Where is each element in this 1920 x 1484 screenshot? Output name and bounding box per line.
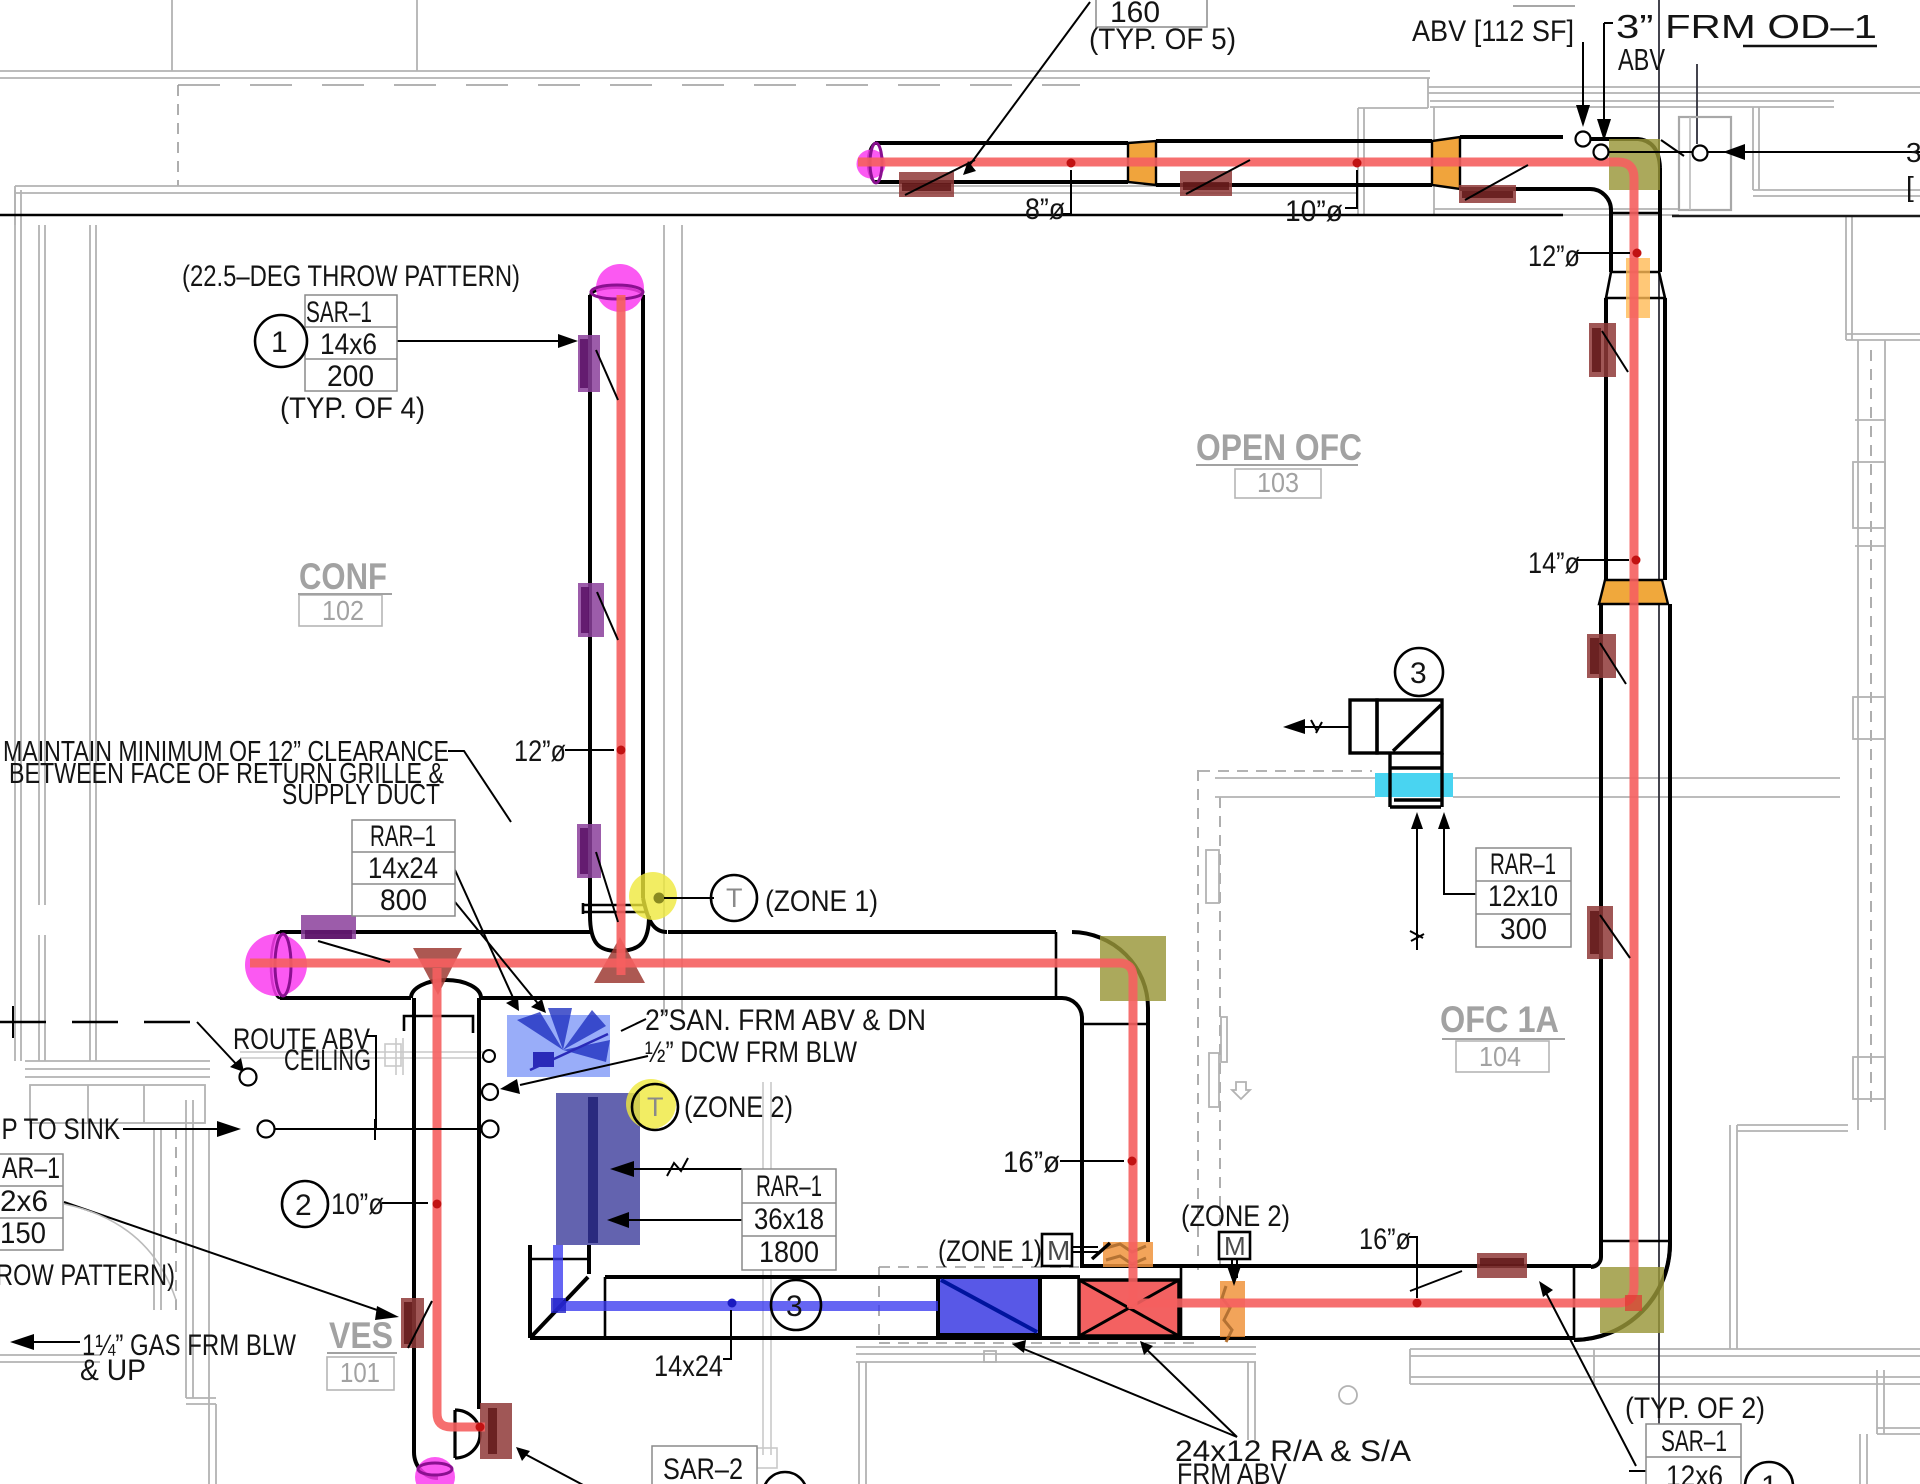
svg-text:36x18: 36x18	[754, 1203, 824, 1236]
svg-text:3: 3	[1906, 137, 1920, 168]
svg-text:ROW PATTERN): ROW PATTERN)	[0, 1259, 175, 1292]
svg-text:16”ø: 16”ø	[1003, 1146, 1060, 1179]
svg-text:RAR–1: RAR–1	[756, 1170, 822, 1203]
svg-text:CEILING: CEILING	[284, 1044, 371, 1077]
svg-text:2: 2	[295, 1189, 312, 1222]
svg-text:16”ø: 16”ø	[1359, 1223, 1411, 1256]
svg-text:200: 200	[327, 360, 374, 393]
svg-text:14x24: 14x24	[654, 1350, 723, 1383]
svg-text:RAR–1: RAR–1	[1490, 848, 1556, 881]
svg-text:1800: 1800	[759, 1236, 819, 1269]
svg-text:SUPPLY DUCT: SUPPLY DUCT	[282, 779, 440, 811]
svg-text:(ZONE 1): (ZONE 1)	[765, 885, 878, 918]
svg-text:ABV [112 SF]: ABV [112 SF]	[1412, 15, 1574, 48]
svg-text:1: 1	[271, 326, 288, 359]
svg-text:(TYP. OF 2): (TYP. OF 2)	[1625, 1392, 1765, 1425]
svg-text:CONF: CONF	[299, 556, 387, 597]
svg-text:8”ø: 8”ø	[1025, 193, 1065, 226]
svg-text:(TYP. OF 4): (TYP. OF 4)	[280, 392, 425, 425]
svg-text:10”ø: 10”ø	[331, 1188, 384, 1221]
svg-text:OFC 1A: OFC 1A	[1440, 999, 1559, 1040]
svg-text:14”ø: 14”ø	[1528, 547, 1580, 580]
svg-text:3: 3	[786, 1290, 803, 1323]
svg-text:12”ø: 12”ø	[514, 735, 566, 768]
svg-text:(22.5–DEG THROW PATTERN): (22.5–DEG THROW PATTERN)	[182, 260, 520, 293]
svg-text:SAR–2: SAR–2	[663, 1453, 743, 1484]
svg-text:104: 104	[1479, 1041, 1521, 1072]
svg-text:12x10: 12x10	[1488, 880, 1558, 913]
svg-text:T: T	[726, 883, 743, 913]
svg-text:10”ø: 10”ø	[1285, 195, 1343, 228]
svg-text:14x24: 14x24	[368, 852, 438, 885]
svg-text:RAR–1: RAR–1	[370, 820, 436, 853]
svg-text:ABV: ABV	[1618, 42, 1665, 77]
svg-text:UP TO SINK: UP TO SINK	[0, 1113, 120, 1146]
svg-text:150: 150	[0, 1217, 46, 1250]
svg-text:VES: VES	[329, 1315, 393, 1356]
svg-text:2”SAN. FRM ABV & DN: 2”SAN. FRM ABV & DN	[645, 1004, 926, 1037]
svg-text:3: 3	[1410, 657, 1427, 690]
svg-text:SAR–1: SAR–1	[306, 296, 372, 329]
svg-text:FRM ABV: FRM ABV	[1177, 1458, 1287, 1484]
svg-text:2x6: 2x6	[0, 1185, 48, 1218]
svg-text:OPEN OFC: OPEN OFC	[1196, 427, 1362, 468]
svg-text:& UP: & UP	[80, 1354, 146, 1387]
svg-text:(TYP. OF 5): (TYP. OF 5)	[1089, 23, 1236, 56]
svg-text:SAR–1: SAR–1	[1661, 1425, 1727, 1458]
svg-text:102: 102	[322, 595, 364, 626]
svg-text:T: T	[647, 1092, 664, 1122]
svg-text:[: [	[1906, 171, 1914, 202]
svg-text:103: 103	[1257, 467, 1299, 498]
svg-text:12x6: 12x6	[1666, 1460, 1723, 1484]
svg-text:½” DCW FRM BLW: ½” DCW FRM BLW	[645, 1036, 858, 1069]
svg-text:(ZONE 2): (ZONE 2)	[684, 1091, 793, 1124]
svg-text:3” FRM OD–1: 3” FRM OD–1	[1616, 8, 1877, 45]
svg-text:12”ø: 12”ø	[1528, 240, 1580, 273]
svg-text:M: M	[1047, 1235, 1070, 1266]
svg-text:AR–1: AR–1	[2, 1152, 60, 1185]
svg-text:M: M	[1224, 1231, 1246, 1261]
svg-text:800: 800	[380, 884, 427, 917]
svg-text:14x6: 14x6	[320, 328, 377, 361]
svg-text:101: 101	[340, 1357, 380, 1388]
svg-text:(ZONE 1): (ZONE 1)	[938, 1235, 1042, 1268]
svg-text:1: 1	[1761, 1470, 1778, 1484]
svg-text:(ZONE 2): (ZONE 2)	[1181, 1200, 1290, 1233]
svg-text:300: 300	[1500, 913, 1547, 946]
